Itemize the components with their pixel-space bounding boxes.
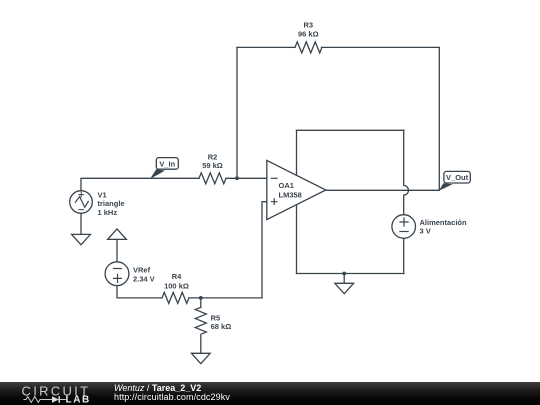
svg-text:LAB: LAB [66, 395, 91, 405]
svg-text:R3: R3 [304, 21, 314, 30]
wire supply rail V+ upper [296, 130, 298, 175]
svg-text:VRef: VRef [133, 265, 151, 274]
ground supply [335, 283, 354, 293]
wire supply rail V- lower [296, 205, 298, 274]
svg-text:V1: V1 [98, 190, 107, 199]
svg-text:LM358: LM358 [279, 191, 302, 200]
voltage source Alimentacion (3 V) [392, 215, 467, 239]
svg-text:59 kΩ: 59 kΩ [202, 161, 223, 170]
flipped ground above VRef [108, 229, 127, 262]
voltage source V1 (triangle 1 kHz) [70, 190, 125, 217]
resistor R2 [199, 152, 226, 183]
svg-text:OA1: OA1 [279, 181, 294, 190]
wire feedback right rail down to output [438, 47, 440, 190]
svg-text:V_In: V_In [159, 159, 175, 168]
voltage source VRef (2.34 V) [105, 262, 155, 286]
wire supply loop top [297, 129, 404, 131]
resistor R3 [295, 21, 322, 53]
wire feedback left rail [236, 47, 238, 178]
net flag V_In [150, 158, 178, 179]
junction node R4/R5 [199, 296, 203, 300]
wire feedback top right [322, 46, 440, 48]
resistor R5 [195, 298, 231, 334]
wire non-inverting input riser [262, 202, 267, 298]
wire supply loop bottom [297, 273, 404, 275]
junction node feedback tap [235, 176, 239, 180]
svg-text:triangle: triangle [98, 199, 125, 208]
svg-text:100 kΩ: 100 kΩ [164, 282, 189, 291]
wire supply loop right upper with hop over output wire [404, 130, 409, 214]
CircuitLab logo [0, 382, 110, 405]
wire R2 to op-amp inverting input [226, 177, 267, 179]
footer title [114, 384, 201, 393]
wire R4 to op-amp non-inverting branch [189, 297, 262, 299]
svg-text:1 kHz: 1 kHz [98, 208, 118, 217]
resistor R4 [162, 272, 189, 303]
net flag V_Out [439, 171, 470, 190]
wire input row from V1 to R2 [81, 178, 199, 191]
footer bar [0, 382, 540, 405]
wire feedback top left [237, 46, 295, 48]
svg-text:3 V: 3 V [420, 227, 431, 236]
wire supply loop right lower [403, 238, 405, 273]
wire VRef to R4 [117, 286, 162, 298]
ground under V1 [72, 234, 91, 244]
svg-text:V_Out: V_Out [446, 173, 469, 182]
op-amp OA1 LM358 [267, 160, 326, 219]
junction node supply ground [342, 272, 346, 276]
svg-text:R5: R5 [211, 313, 221, 322]
wire R5 to ground [200, 336, 202, 354]
svg-text:2.34 V: 2.34 V [133, 274, 155, 283]
ground under R5 [191, 353, 210, 363]
svg-text:96 kΩ: 96 kΩ [298, 29, 319, 38]
wire supply ground stem [343, 274, 345, 284]
wire op-amp output [326, 189, 440, 191]
svg-text:Alimentación: Alimentación [420, 218, 468, 227]
svg-text:68 kΩ: 68 kΩ [211, 322, 232, 331]
svg-text:R4: R4 [172, 272, 182, 281]
footer url [114, 393, 230, 402]
wire V1 to ground [80, 213, 82, 234]
